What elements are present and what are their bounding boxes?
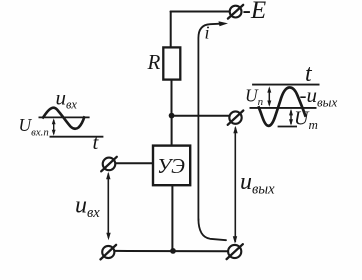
svg-text:Um: Um [294,108,318,133]
terminal output upper right [228,111,244,125]
U_vx.p measure arrow [53,120,55,134]
wire junction down to UE box [171,116,173,146]
wire junction to output terminal [174,115,230,117]
wire from top rail down to resistor [170,12,172,48]
arrowhead of current i [219,21,229,26]
resistor R [163,47,180,79]
svg-text:uвх: uвх [56,86,78,112]
wire current path i with curves [198,24,220,220]
arrowheads [106,21,238,244]
wire trough level tick [278,126,297,128]
terminal input left [101,157,117,172]
svg-text:R: R [147,50,161,74]
left input waveform [39,108,104,137]
wire UE bottom to bottom rail [171,185,173,250]
U_m measure arrow [290,111,292,125]
wire bias level line [39,116,90,118]
node junction emitter [170,248,176,254]
wire top rail [171,11,229,13]
wire zero axis line [50,136,104,138]
svg-text:i: i [205,23,210,43]
output sine wave [258,87,305,125]
wire UE input left [116,162,153,164]
svg-text:УЭ: УЭ [157,154,185,178]
wire mid axis line [250,107,317,109]
u_vx measure arrow [107,174,109,238]
wire resistor to junction [171,80,173,114]
wire top level line [252,84,319,86]
u_vyx measure arrow [234,128,236,243]
wire bottom rail [115,250,228,252]
terminal -E top right [228,5,243,19]
svg-text:Uвх.п: Uвх.п [19,115,49,138]
op-amp UE (amplifier element box) [153,146,190,186]
svg-text:-E: -E [243,0,267,24]
U_p measure arrow [268,89,270,106]
terminal output bottom right [227,244,243,259]
svg-text:-uвых: -uвых [300,83,338,110]
terminal input bottom left [101,245,117,260]
right output waveform [250,85,320,127]
svg-text:uвых: uвых [240,169,275,198]
svg-text:t: t [93,130,100,154]
svg-text:Uп: Uп [245,86,264,109]
node junction collector [169,113,175,119]
svg-text:uвх: uвх [75,193,100,222]
input sine wave [42,108,84,129]
